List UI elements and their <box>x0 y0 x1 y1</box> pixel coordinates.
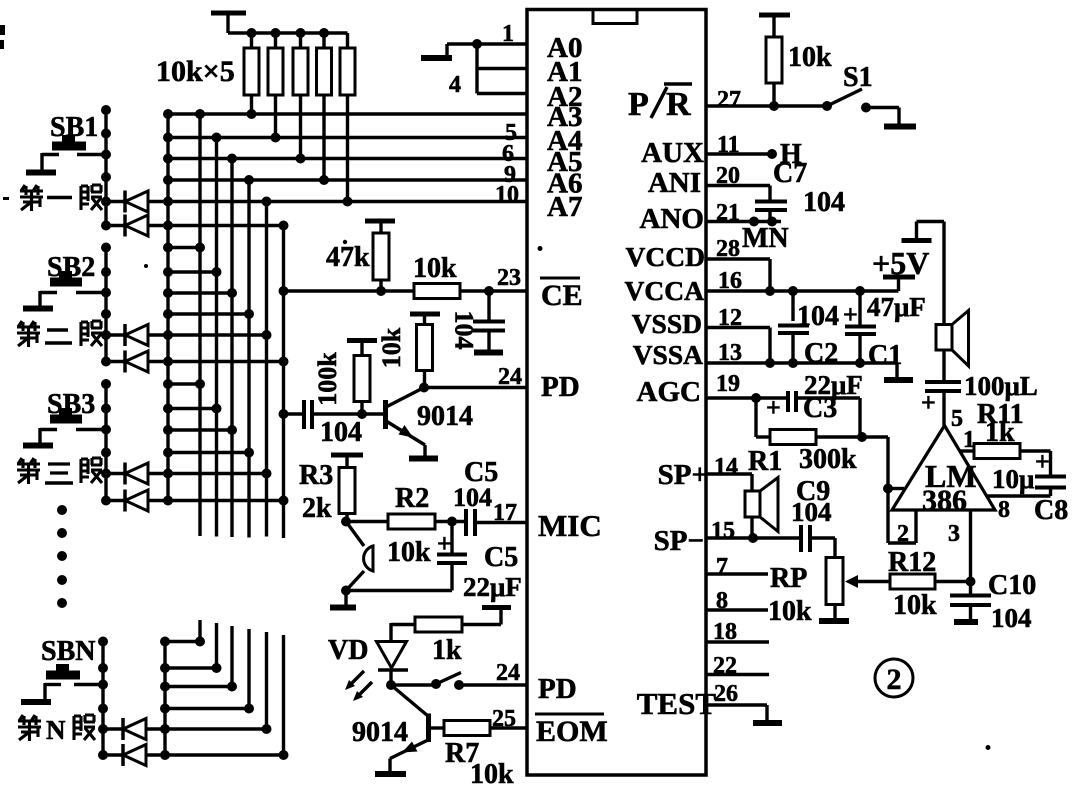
svg-text:R3: R3 <box>299 460 333 491</box>
power bar over 10k pullup <box>759 15 790 37</box>
svg-text:9014: 9014 <box>352 717 408 748</box>
svg-text:4: 4 <box>449 72 461 98</box>
matrix column 3 <box>230 159 233 687</box>
svg-text:14: 14 <box>714 454 738 480</box>
svg-text:10k: 10k <box>788 42 832 73</box>
svg-text:15: 15 <box>711 518 735 544</box>
matrix column 5 <box>265 202 268 730</box>
resistor R12 10k <box>888 547 971 621</box>
power feed top right <box>902 222 945 325</box>
svg-text:+: + <box>921 388 936 417</box>
svg-text:2k: 2k <box>302 493 332 524</box>
resistor leads down to rows <box>247 95 353 207</box>
svg-text:TEST: TEST <box>637 686 717 721</box>
svg-text:8: 8 <box>998 497 1010 523</box>
svg-text:+: + <box>843 300 858 329</box>
svg-text:10k: 10k <box>377 327 406 368</box>
node mic ground <box>341 586 351 596</box>
wire pin28 VCCD <box>706 259 770 291</box>
svg-text:MIC: MIC <box>538 508 602 543</box>
power bar over R3 <box>331 455 363 468</box>
svg-text:R2: R2 <box>395 483 429 514</box>
button bus SB3 <box>104 384 107 501</box>
svg-text:22μF: 22μF <box>463 572 522 602</box>
button bus SB2 <box>104 248 107 362</box>
svg-text:10k: 10k <box>768 596 812 627</box>
power +5V bar <box>872 245 929 281</box>
svg-text:C3: C3 <box>803 393 837 424</box>
wire pin A1 <box>477 67 527 70</box>
junction dots on feed wire <box>247 28 330 38</box>
svg-text:386: 386 <box>922 484 967 517</box>
svg-text:+: + <box>437 529 452 558</box>
ground below mic <box>330 591 356 608</box>
svg-text:27: 27 <box>717 87 741 113</box>
capacitor C5 104 film <box>447 457 527 536</box>
svg-text:10k: 10k <box>893 590 937 621</box>
wire pin A2 <box>477 92 527 95</box>
transistor Q1 9014 <box>386 388 474 459</box>
svg-text:47k: 47k <box>326 242 370 273</box>
svg-text:3: 3 <box>948 521 960 547</box>
capacitor 100uF output <box>921 350 1038 426</box>
svg-text:C1: C1 <box>868 340 902 371</box>
svg-text:100k: 100k <box>313 352 342 406</box>
svg-text:SP−: SP− <box>654 525 704 557</box>
svg-text:PD: PD <box>541 371 580 403</box>
op-amp LM386 <box>892 406 1010 547</box>
diode SBN a <box>123 718 146 740</box>
diode SB3 a <box>125 463 148 485</box>
svg-text:2: 2 <box>887 663 902 696</box>
capacitor C1 47uF <box>843 291 926 371</box>
SBN diode row 2 wire <box>103 753 284 756</box>
svg-text:SP+: SP+ <box>658 459 708 491</box>
wire pin21 ANO nodes M N <box>706 217 789 255</box>
IC U1 voice chip body <box>527 10 706 776</box>
svg-text:C8: C8 <box>1034 495 1068 526</box>
ground for A0-A2 <box>421 44 452 58</box>
wire pin26 TEST to ground <box>706 705 782 723</box>
matrix column 6 <box>282 226 285 756</box>
svg-text:+5V: +5V <box>872 245 929 281</box>
matrix collector vertical lower <box>163 642 166 756</box>
SB2 diode row 2 wire <box>106 360 284 363</box>
svg-text:R12: R12 <box>888 547 936 578</box>
svg-text:ANO: ANO <box>640 203 704 235</box>
svg-text:104: 104 <box>791 497 832 527</box>
address row A5 wire <box>168 157 527 160</box>
pin label P/R <box>628 84 692 123</box>
pushbutton SB2 <box>23 252 106 309</box>
diode SB2 a <box>125 324 148 346</box>
label section N (Chinese) <box>18 715 95 745</box>
ellipsis dots <box>57 505 67 608</box>
wire pin8 <box>706 608 768 611</box>
svg-text:AGC: AGC <box>637 376 701 408</box>
resistor R7 10k <box>429 721 528 791</box>
svg-text:EOM: EOM <box>536 715 608 748</box>
svg-text:104: 104 <box>320 417 362 448</box>
switch S1 <box>822 62 916 127</box>
node on A0 wire <box>472 39 482 49</box>
wire pin13 VSSA <box>706 358 913 380</box>
label section 2 (Chinese) <box>17 321 102 347</box>
wire pin3 LM386 <box>966 510 976 594</box>
svg-text:1k: 1k <box>432 635 462 666</box>
wire pin22 <box>706 673 769 676</box>
capacitor C3 22uF <box>766 370 863 437</box>
power bar over 100k <box>347 341 377 356</box>
capacitor 104 base coupling <box>279 400 384 448</box>
address row A3 wire <box>168 112 527 115</box>
diode SBN b <box>123 744 146 766</box>
diode SB1 b <box>125 215 148 237</box>
potentiometer RP 10k <box>768 558 849 628</box>
wire pin7 <box>706 572 768 575</box>
svg-text:N: N <box>46 715 66 745</box>
svg-text:100μL: 100μL <box>964 371 1038 401</box>
svg-text:104: 104 <box>797 301 839 332</box>
svg-text:A7: A7 <box>547 191 582 223</box>
button bus SB1 <box>104 110 107 226</box>
speaker left <box>745 478 778 539</box>
svg-text:104: 104 <box>450 311 479 350</box>
SB2 diode row 1 wire <box>106 333 267 336</box>
wire pin12 VSSD <box>706 328 770 364</box>
svg-text:10k: 10k <box>413 253 457 284</box>
resistor bank R 10k c <box>293 33 308 95</box>
svg-text:P: P <box>628 86 649 123</box>
svg-text:C2: C2 <box>804 338 838 369</box>
circled 2 figure mark <box>875 659 913 697</box>
pushbutton SBN <box>21 636 103 702</box>
svg-text:9014: 9014 <box>417 401 473 432</box>
svg-text:VD: VD <box>328 635 368 666</box>
svg-text:VCCD: VCCD <box>626 241 705 272</box>
wire pin23 CE net <box>279 286 528 296</box>
wire pin1 A0 <box>447 42 527 45</box>
pin label EOM with overline <box>535 714 608 748</box>
resistor bank R 10k e <box>340 33 355 95</box>
svg-text:1k: 1k <box>985 417 1015 448</box>
power bar over 1k <box>482 608 511 625</box>
svg-text:47μF: 47μF <box>867 292 926 322</box>
wire feed to resistor bank <box>228 31 348 34</box>
matrix column 2 <box>215 138 218 669</box>
svg-text:2: 2 <box>897 521 909 547</box>
svg-text:10k: 10k <box>387 537 431 568</box>
SB3 diode row 2 wire <box>106 499 284 502</box>
wire pin19 AGC <box>706 393 788 403</box>
label section 1 (Chinese) <box>20 185 102 211</box>
matrix junction dots <box>98 105 289 760</box>
matrix column 1 <box>198 114 201 642</box>
wire AGC to LM386 input <box>862 437 916 543</box>
svg-text:AUX: AUX <box>641 137 704 169</box>
matrix collector vertical <box>166 114 169 501</box>
resistor bank R 10k d <box>317 33 332 95</box>
svg-text:VSSD: VSSD <box>632 308 702 339</box>
svg-text:MN: MN <box>742 223 789 254</box>
svg-text:SBN: SBN <box>41 636 95 667</box>
svg-text:10k: 10k <box>470 759 514 790</box>
capacitor 104 on CE <box>450 291 506 353</box>
wire pin27 <box>706 101 827 111</box>
svg-text:23: 23 <box>497 265 521 291</box>
wire pin18 <box>706 640 769 643</box>
svg-text:26: 26 <box>714 681 738 707</box>
capacitor C7 104 <box>755 158 845 222</box>
resistor bank R 10k a <box>244 33 259 95</box>
svg-text:VSSA: VSSA <box>633 339 703 370</box>
resistor 1k LED <box>391 617 501 666</box>
SBN rung wires <box>165 642 249 709</box>
svg-text:19: 19 <box>716 371 740 397</box>
svg-text:7: 7 <box>716 554 728 580</box>
label section 3 (Chinese) <box>17 458 102 484</box>
diode SB2 b <box>125 351 148 373</box>
capacitor C9 104 <box>791 476 835 558</box>
svg-text:104: 104 <box>991 603 1032 633</box>
LED VD <box>328 635 408 685</box>
capacitor C10 104 <box>950 570 1036 633</box>
svg-text:C5: C5 <box>484 542 518 573</box>
power bar over 47k <box>365 221 395 233</box>
SB3 rung wires <box>168 384 249 453</box>
diode SB1 a on A7 row <box>125 191 148 213</box>
SB3 diode row 1 wire <box>106 472 267 475</box>
wire bracket A0-A2 <box>475 44 478 94</box>
svg-text:300k: 300k <box>799 444 857 475</box>
SBN diode row 1 wire <box>103 727 267 730</box>
svg-text:10k×5: 10k×5 <box>156 55 235 88</box>
svg-text:ANI: ANI <box>648 167 701 199</box>
pushbutton SB1 <box>26 112 106 173</box>
capacitor C5 22uF electrolytic <box>346 522 522 603</box>
button bus SBN <box>101 642 104 756</box>
svg-text:24: 24 <box>496 660 520 686</box>
capacitor C8 10uF <box>986 447 1068 526</box>
wire pin24 PD net <box>419 383 527 393</box>
svg-text:10μ: 10μ <box>992 464 1034 494</box>
svg-text:C10: C10 <box>988 570 1036 601</box>
wire pin11 AUX with node H <box>706 139 802 170</box>
SB2 rung wires <box>168 248 249 315</box>
resistor bank R 10k b <box>268 33 283 95</box>
wiper arrow from R12 to RP <box>845 575 890 588</box>
resistor 100k <box>313 352 370 414</box>
svg-text:RP: RP <box>770 563 807 594</box>
svg-text:104: 104 <box>803 187 845 218</box>
svg-text:10: 10 <box>495 182 519 208</box>
node VD cathode <box>386 680 396 690</box>
SB1 second diode row wire <box>106 224 284 227</box>
svg-text:+: + <box>1035 447 1050 476</box>
wire pin20 ANI <box>706 186 770 202</box>
resistor R1 300k <box>748 398 867 477</box>
svg-text:S1: S1 <box>843 62 873 93</box>
svg-text:CE: CE <box>541 279 583 312</box>
svg-text:PD: PD <box>538 673 577 705</box>
svg-text:R: R <box>666 86 691 123</box>
svg-text:C7: C7 <box>773 158 807 189</box>
svg-text:VCCA: VCCA <box>625 275 705 306</box>
address row A7 wire <box>106 200 527 203</box>
resistor R3 2k <box>299 460 355 524</box>
pushbutton SB3 <box>23 389 106 446</box>
wire pin16 VCCA <box>706 279 899 296</box>
resistor 10k vertical to PD <box>377 325 433 388</box>
capacitor C2 104 <box>778 291 839 369</box>
wire pin15 SP- <box>706 533 800 543</box>
node R3 mic R2 <box>341 517 351 527</box>
resistor R11 1k <box>959 399 1051 459</box>
power bar over vertical 10k <box>410 314 440 325</box>
svg-text:R1: R1 <box>748 446 782 477</box>
speaker right <box>936 311 969 367</box>
resistor R2 10k <box>346 483 466 568</box>
transistor Q2 9014 <box>352 685 429 774</box>
svg-text:5: 5 <box>951 406 963 432</box>
power bar over resistor bank <box>211 13 246 33</box>
address row A6 wire <box>168 178 527 181</box>
resistor 47k <box>326 233 389 291</box>
diode SB3 b <box>125 490 148 512</box>
svg-text:+: + <box>766 393 781 422</box>
pin label CE with overline <box>540 278 583 312</box>
resistor 10k on CE <box>413 253 460 299</box>
LED light arrows <box>345 671 372 701</box>
address row A4 wire <box>168 136 527 139</box>
resistor 10k pullup P/R <box>766 37 832 106</box>
matrix column 4 <box>247 180 250 709</box>
microphone MIC <box>346 522 373 591</box>
switch on PD lower <box>391 673 527 691</box>
wire pin14 SP+ <box>706 474 752 491</box>
svg-text:104: 104 <box>453 483 492 512</box>
